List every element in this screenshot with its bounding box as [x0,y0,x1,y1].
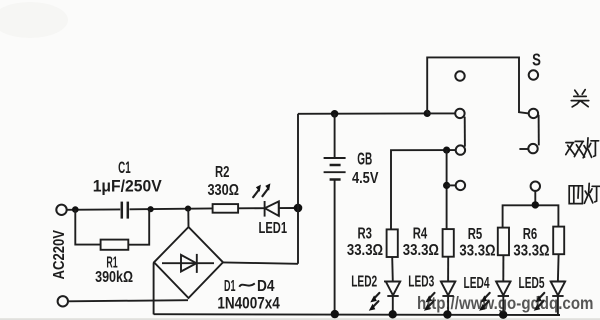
svg-text:LED1: LED1 [259,220,288,237]
switch contact R2 [529,109,538,118]
wire right vertical [297,114,299,264]
switch contact L4 [456,181,465,190]
svg-text:LED2: LED2 [351,273,377,290]
LED5 diode [550,281,565,296]
wire R3 to LED2 [391,257,394,281]
wire bridge left to bottom rail [153,263,155,315]
resistor R2 [213,204,239,213]
LED1 diode [265,201,279,217]
svg-text:LED5: LED5 [519,275,545,292]
node C1 right junction [148,206,154,212]
wire top rail left [67,208,121,210]
LED3 diode [441,281,456,296]
svg-text:AC220V: AC220V [51,229,68,279]
wire switch loop [427,57,529,113]
svg-text:GB: GB [357,149,372,169]
resistor R4 [443,229,454,257]
label sideng [569,186,582,204]
LED5 emission arrows [534,293,545,311]
wire R1 branch [75,210,100,245]
wire bridge right lead [223,262,298,263]
resistor R5 [498,228,509,256]
node switch feed junction [424,110,431,117]
node row4 junction [443,182,450,189]
bridge rectifier D1-D4 [154,227,223,298]
wire row3 feed [391,150,456,229]
svg-text:1μF/250V: 1μF/250V [93,177,162,195]
label guan [571,90,588,107]
wire LED4 to rail [502,296,504,315]
svg-text:LED3: LED3 [408,274,434,291]
svg-text:R6: R6 [523,226,538,243]
node battery bottom [331,310,339,318]
svg-text:33.3Ω: 33.3Ω [459,243,495,260]
switch wiper right [538,115,540,146]
svg-text:C1: C1 [118,159,131,177]
wire bridge top lead [187,209,189,228]
svg-text:LED4: LED4 [464,275,490,292]
LED4 emission arrows [479,293,490,311]
svg-text:33.3Ω: 33.3Ω [347,242,383,259]
svg-text:330Ω: 330Ω [207,182,239,199]
LED4 diode [496,281,511,296]
svg-text:D1: D1 [224,278,236,295]
wire LED5 to rail [557,296,559,315]
wire LED3 to rail [447,296,449,315]
node DC plus [294,204,303,213]
svg-text:R5: R5 [468,226,483,243]
switch contact R1 [529,70,538,79]
svg-text:http://www.go-gddq.com: http://www.go-gddq.com [417,293,594,313]
LED2 diode [384,281,401,296]
wire R1 right [128,209,149,244]
node R5R6 junction [532,201,539,208]
svg-text:33.3Ω: 33.3Ω [403,242,439,259]
resistor R3 [387,229,398,257]
LED2 emission arrows [369,293,380,311]
wire AC bottom [68,300,188,301]
svg-text:R2: R2 [215,164,230,181]
battery GB [324,114,346,314]
svg-text:33.3Ω: 33.3Ω [513,243,549,260]
resistor R6 [553,227,564,255]
wire LED2 to rail [392,296,394,314]
switch wiper left [464,117,466,147]
wire R4 to LED3 [447,257,449,282]
svg-text:1N4007x4: 1N4007x4 [217,295,280,313]
node junction top-left [72,206,79,213]
node battery tap [331,110,339,118]
svg-text:D4: D4 [257,278,275,295]
node LED2 rail [389,310,397,318]
wire R5R6 feed [503,191,559,228]
switch stub dash [519,148,528,150]
wire battery top rail [298,112,427,114]
switch contact L3 [456,145,465,154]
LED1 emission arrows [253,183,270,197]
wire R4 feed [446,150,448,229]
wire R5 to LED4 [502,255,504,281]
wire top rail mid [130,207,214,210]
wire R2 to LED1 [238,207,264,209]
wire row4 stub [447,184,456,186]
switch contact R3 [528,144,537,153]
diode symbol inside bridge [162,254,214,273]
capacitor C1 [122,202,128,219]
terminal AC top [56,205,66,215]
LED3 emission arrows [424,293,435,311]
svg-text:4.5V: 4.5V [352,170,379,187]
node LED3 rail [443,310,451,318]
resistor R1 [101,240,129,250]
label D1~D4 [224,278,275,295]
wire bottom rail [154,313,560,316]
node bridge top junction [185,206,191,212]
wire R6 to LED5 [557,254,560,281]
switch contact L1 [455,71,464,80]
svg-text:R3: R3 [357,225,372,242]
label shuangdeng [566,141,585,157]
terminal AC bottom [58,296,68,306]
switch contact R4 [531,182,540,191]
wire to contact L2 [427,112,455,114]
switch contact L2 [455,109,464,118]
node R3R4 row junction [443,147,450,154]
svg-text:390kΩ: 390kΩ [95,269,133,286]
svg-text:R4: R4 [413,225,428,242]
svg-text:S: S [532,49,541,69]
node LED4 rail [499,311,507,319]
wire LED1 to node [279,207,298,209]
